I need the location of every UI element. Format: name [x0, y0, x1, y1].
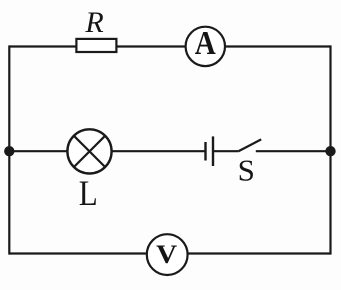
wire: middle branch, left dot to battery: [9, 150, 205, 152]
svg-text:R: R: [84, 6, 103, 39]
wire: switch contact to right dot: [256, 150, 331, 152]
wire: left side of loop: [8, 45, 10, 254]
node: right junction: [325, 146, 335, 156]
svg-text:A: A: [195, 25, 216, 62]
wire: top side of loop: [9, 45, 330, 47]
node: left junction: [4, 146, 14, 156]
wire: battery to switch pivot: [213, 150, 238, 152]
ammeter A: [186, 27, 225, 66]
resistor R: [76, 39, 116, 52]
voltmeter V: [147, 234, 188, 275]
wire: right side of loop: [329, 45, 331, 254]
switch S blade: [238, 139, 261, 151]
svg-text:V: V: [156, 240, 177, 269]
svg-text:S: S: [238, 153, 255, 188]
battery cell: short (negative) plate: [204, 142, 206, 161]
wire: bottom side of loop: [9, 252, 330, 254]
battery cell: long (positive) plate: [212, 136, 214, 166]
svg-text:L: L: [79, 173, 98, 213]
lamp L: [67, 129, 111, 173]
